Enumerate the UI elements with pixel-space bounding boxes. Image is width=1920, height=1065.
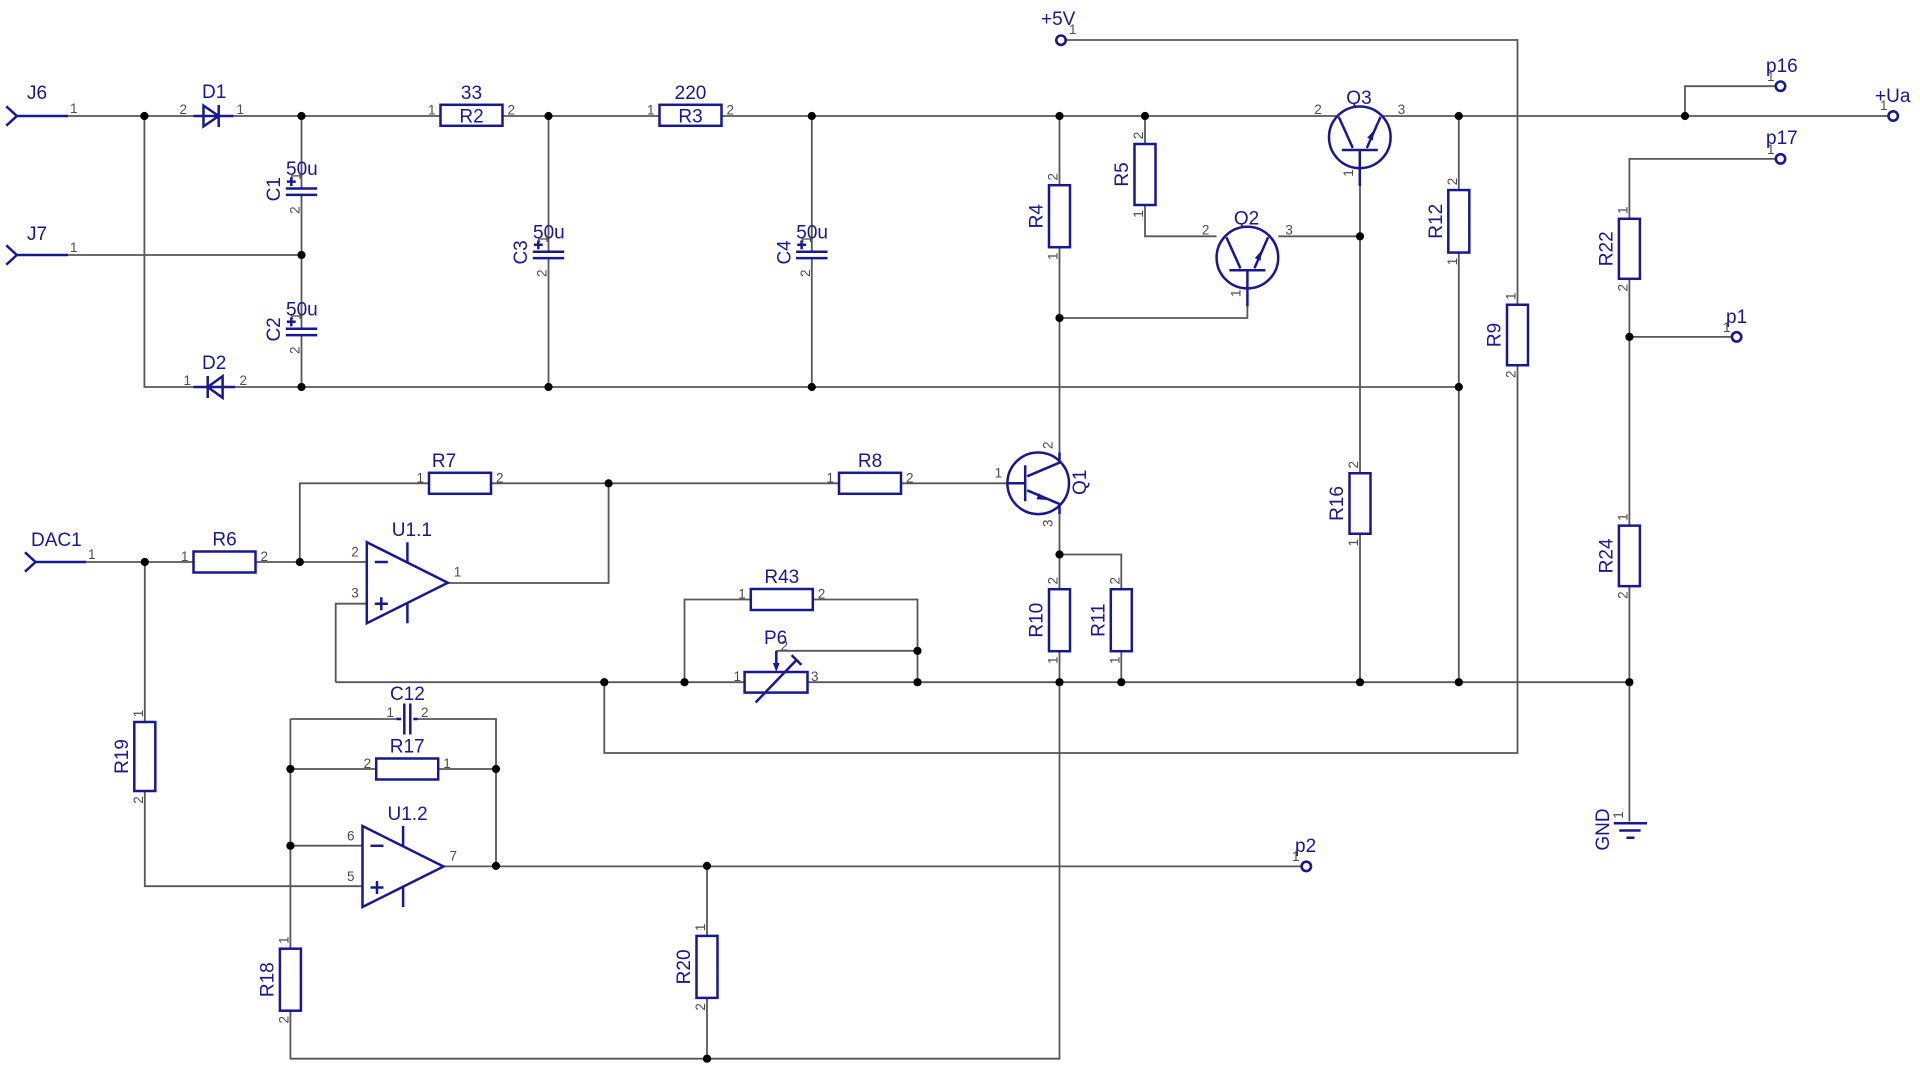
junction R7-R8-out	[605, 479, 613, 487]
junction C3 bottom	[544, 383, 552, 391]
wire R6 to U1.1 in-	[256, 561, 367, 563]
diode D2	[183, 353, 247, 398]
wire rail to GND	[1628, 682, 1630, 821]
svg-text:1: 1	[1504, 292, 1519, 300]
node p16	[1766, 56, 1798, 91]
svg-text:R3: R3	[678, 106, 702, 127]
resistor R19	[112, 710, 156, 804]
junction P6 wiper node	[913, 647, 921, 655]
junction R17 right	[492, 765, 500, 773]
wire C1 to J7 node	[301, 195, 303, 255]
wire +5V rail top	[1066, 40, 1518, 305]
svg-text:1: 1	[1616, 513, 1631, 521]
wire R11 jog	[1060, 555, 1122, 590]
wire R3 to Q3	[722, 115, 1339, 117]
svg-text:2: 2	[508, 102, 516, 117]
svg-text:1: 1	[416, 470, 424, 485]
resistor R22	[1596, 207, 1640, 292]
junction rail-R24	[1625, 678, 1633, 686]
svg-text:2: 2	[1108, 577, 1123, 585]
capacitor C12	[386, 684, 428, 735]
wire R6 node up to R7	[300, 483, 429, 562]
svg-text:1: 1	[1292, 849, 1300, 864]
svg-text:1: 1	[1616, 207, 1631, 215]
junction J6-D1 node	[140, 112, 148, 120]
wire bias node down	[707, 682, 1060, 1058]
wire J6 to D1 and C1 node	[68, 115, 441, 117]
wire R9 down and jog to rail	[604, 365, 1517, 753]
transistor Q3	[1314, 88, 1405, 186]
svg-text:1: 1	[289, 313, 304, 321]
wire R22 to p1 node	[1628, 279, 1630, 337]
svg-text:5: 5	[347, 869, 355, 884]
svg-text:R4: R4	[1027, 204, 1048, 229]
svg-text:R11: R11	[1088, 603, 1109, 636]
svg-text:2: 2	[1314, 102, 1322, 117]
wire DAC1 node to R19	[144, 562, 146, 722]
junction R5 top	[1141, 112, 1149, 120]
svg-text:2: 2	[1046, 577, 1061, 585]
wire C2 lead top	[301, 255, 303, 328]
junction p16 node	[1681, 112, 1689, 120]
svg-text:1: 1	[1069, 22, 1077, 37]
wire D2 to R12 node	[235, 386, 1459, 388]
svg-text:2: 2	[496, 470, 504, 485]
svg-text:U1.2: U1.2	[388, 804, 428, 825]
svg-text:2: 2	[1616, 591, 1631, 599]
wire R43 right leg	[813, 600, 918, 683]
junction p1 node	[1625, 333, 1633, 341]
wire p1 node to R24	[1628, 337, 1630, 526]
wire C3 lead bottom	[548, 259, 550, 388]
resistor R12	[1426, 178, 1470, 266]
wire U1.1 in+ loop	[336, 604, 367, 683]
junction rail-R9	[600, 678, 608, 686]
junction DAC1-R19	[141, 558, 149, 566]
wire C12 node down	[289, 719, 291, 846]
junction C3 top	[544, 112, 552, 120]
svg-text:1: 1	[1445, 258, 1460, 266]
svg-text:Q2: Q2	[1234, 208, 1259, 229]
svg-text:DAC1: DAC1	[31, 530, 82, 551]
svg-text:7: 7	[450, 849, 458, 864]
wire R20 bottom	[706, 998, 708, 1059]
svg-text:Q1: Q1	[1070, 470, 1091, 495]
svg-text:U1.1: U1.1	[392, 520, 432, 541]
junction J7-C1-C2	[297, 251, 305, 259]
op-amp U1.2	[347, 804, 457, 907]
svg-text:1: 1	[1341, 169, 1356, 177]
junction rail-R10	[1055, 678, 1063, 686]
svg-text:3: 3	[1041, 520, 1056, 528]
svg-text:1: 1	[1611, 811, 1626, 819]
node +5V	[1041, 9, 1077, 45]
svg-text:1: 1	[1346, 539, 1361, 547]
svg-text:2: 2	[693, 1003, 708, 1011]
node p17	[1766, 128, 1798, 164]
wire P6 wiper to node	[776, 650, 917, 652]
resistor R16	[1327, 461, 1371, 547]
svg-text:2: 2	[1046, 173, 1061, 181]
wire R17 row right	[438, 768, 496, 770]
wire R12 node to rail	[1458, 387, 1460, 682]
junction out-R20	[703, 862, 711, 870]
junction C4 top	[808, 112, 816, 120]
resistor R4	[1027, 173, 1071, 260]
svg-text:R43: R43	[764, 567, 799, 588]
junction rail-R12	[1455, 678, 1463, 686]
svg-text:2: 2	[364, 756, 372, 771]
wire bias rail left	[336, 681, 745, 683]
diode D1	[179, 82, 244, 127]
svg-text:3: 3	[811, 669, 819, 684]
transistor Q1	[995, 442, 1092, 528]
svg-text:1: 1	[1131, 210, 1146, 218]
svg-text:2: 2	[351, 545, 359, 560]
junction C1 top	[297, 112, 305, 120]
svg-text:3: 3	[351, 585, 359, 600]
wire C12 row right	[418, 719, 497, 866]
svg-text:1: 1	[277, 936, 292, 944]
svg-text:R6: R6	[212, 530, 236, 551]
svg-text:R20: R20	[674, 949, 695, 984]
svg-text:1: 1	[738, 587, 746, 602]
svg-text:D2: D2	[202, 353, 226, 374]
wire J6 node down to D2	[144, 116, 193, 387]
wire C12 row left	[290, 718, 396, 720]
wire DAC1 to R6	[86, 561, 194, 563]
transistor Q2	[1202, 208, 1293, 306]
svg-text:R7: R7	[432, 451, 456, 472]
svg-text:R16: R16	[1327, 486, 1348, 521]
svg-text:3: 3	[1398, 102, 1406, 117]
junction R17 left	[286, 765, 294, 773]
wire R18 to bottom rail	[290, 1011, 707, 1059]
svg-text:C2: C2	[264, 317, 285, 341]
svg-text:1: 1	[1108, 656, 1123, 664]
svg-text:2: 2	[1616, 284, 1631, 292]
wire R43 left leg	[685, 600, 751, 683]
svg-text:2: 2	[277, 1016, 292, 1024]
svg-text:2: 2	[288, 206, 303, 214]
svg-text:1: 1	[289, 172, 304, 180]
wire R10 top	[1059, 555, 1061, 590]
capacitor C1	[264, 159, 318, 214]
svg-text:Q3: Q3	[1346, 88, 1371, 109]
svg-text:R17: R17	[390, 737, 425, 758]
svg-text:1: 1	[454, 565, 462, 580]
svg-text:2: 2	[906, 470, 914, 485]
resistor R18	[257, 936, 301, 1023]
svg-text:1: 1	[799, 236, 814, 244]
svg-text:2: 2	[781, 639, 789, 654]
resistor R24	[1596, 513, 1640, 599]
connector DAC1	[25, 530, 96, 572]
ground GND	[1593, 808, 1647, 850]
svg-text:J6: J6	[27, 83, 47, 104]
wire R7 to R8	[491, 482, 839, 484]
svg-text:1: 1	[88, 547, 96, 562]
svg-text:1: 1	[183, 373, 191, 388]
svg-text:3: 3	[1285, 222, 1293, 237]
wire bias rail right	[808, 681, 1630, 683]
wire Q2 to Q3 node	[1278, 235, 1360, 237]
svg-text:2: 2	[288, 347, 303, 355]
wire R12 top	[1458, 116, 1460, 190]
wire p16 stub	[1685, 86, 1776, 116]
svg-text:1: 1	[237, 102, 245, 117]
svg-text:2: 2	[818, 587, 826, 602]
svg-text:1: 1	[693, 924, 708, 932]
svg-text:R18: R18	[257, 962, 278, 997]
svg-text:33: 33	[461, 83, 482, 104]
svg-text:1: 1	[443, 756, 451, 771]
resistor R8	[826, 451, 913, 494]
wire R17 row left	[290, 768, 376, 770]
svg-text:D1: D1	[202, 82, 226, 103]
svg-text:2: 2	[179, 102, 187, 117]
wire R8 to Q1 base	[901, 482, 1008, 484]
junction Q2-Q3 node	[1356, 232, 1364, 240]
junction rail-R43	[680, 678, 688, 686]
svg-text:2: 2	[727, 102, 735, 117]
svg-text:C1: C1	[264, 177, 285, 201]
wire C3 lead top	[548, 116, 550, 251]
svg-text:R5: R5	[1112, 162, 1133, 186]
junction C4 bottom	[808, 383, 816, 391]
wire C4 lead bottom	[811, 259, 813, 388]
op-amp U1.1	[351, 520, 461, 623]
junction rail-R43b	[913, 678, 921, 686]
wire Q3 to +Ua	[1381, 115, 1888, 117]
wire R12 to D2 row	[1458, 253, 1460, 387]
svg-text:2: 2	[240, 373, 248, 388]
resistor R43	[738, 567, 825, 610]
svg-text:2: 2	[1445, 178, 1460, 186]
svg-text:6: 6	[347, 829, 355, 844]
connector J7	[6, 224, 77, 265]
svg-text:R12: R12	[1426, 204, 1447, 239]
junction Q1-R10-R11	[1055, 550, 1063, 558]
junction rail-R16	[1356, 678, 1364, 686]
wire U1.1 output	[448, 483, 609, 583]
capacitor C4	[774, 222, 828, 277]
capacitor C2	[264, 299, 318, 354]
svg-text:R10: R10	[1027, 603, 1048, 638]
wire R24 to rail	[1628, 586, 1630, 682]
resistor R9	[1485, 292, 1529, 378]
node p2	[1292, 836, 1316, 871]
svg-text:C12: C12	[390, 684, 425, 705]
svg-text:220: 220	[675, 83, 707, 104]
wire p17 to R22	[1629, 159, 1775, 219]
wire R5 to Q2 base	[1145, 205, 1217, 236]
svg-text:2: 2	[261, 549, 269, 564]
resistor R17	[364, 737, 451, 780]
svg-text:2: 2	[1202, 222, 1210, 237]
svg-text:R24: R24	[1596, 538, 1617, 573]
svg-text:1: 1	[995, 465, 1003, 480]
svg-text:2: 2	[1346, 461, 1361, 469]
junction R4 top	[1055, 112, 1063, 120]
svg-text:1: 1	[1046, 656, 1061, 664]
svg-text:R22: R22	[1596, 231, 1617, 266]
svg-text:1: 1	[1767, 69, 1775, 84]
svg-text:C4: C4	[774, 240, 795, 265]
resistor R11	[1088, 577, 1132, 664]
svg-text:1: 1	[1767, 142, 1775, 157]
connector J6	[6, 83, 77, 126]
resistor R6	[181, 530, 268, 573]
svg-text:1: 1	[1880, 98, 1888, 113]
wire Q1 emitter down	[1059, 515, 1061, 555]
svg-text:2: 2	[535, 270, 550, 278]
svg-text:1: 1	[70, 101, 78, 116]
wire Q3 emitter down	[1359, 186, 1361, 473]
wire R16 to rail	[1359, 534, 1361, 683]
svg-text:R9: R9	[1485, 323, 1506, 347]
svg-text:1: 1	[70, 240, 78, 255]
svg-text:1: 1	[386, 705, 394, 720]
resistor R7	[416, 451, 503, 494]
svg-text:1: 1	[536, 236, 551, 244]
junction R6-R7 node	[296, 558, 304, 566]
resistor R3	[647, 83, 734, 128]
capacitor C3	[511, 222, 565, 277]
junction R12-D2 row	[1455, 383, 1463, 391]
svg-text:1: 1	[428, 102, 436, 117]
svg-text:1: 1	[1228, 290, 1243, 298]
node p1	[1723, 307, 1747, 342]
svg-text:1: 1	[1723, 320, 1731, 335]
node +Ua	[1875, 86, 1911, 121]
junction R12 top	[1455, 112, 1463, 120]
junction Q2 emitter	[1055, 314, 1063, 322]
svg-text:1: 1	[181, 549, 189, 564]
wire U1.2 output to p2	[444, 865, 1302, 867]
wire J7 to C1-C2 node	[68, 254, 302, 256]
wire R11 bottom	[1120, 651, 1122, 682]
svg-text:2: 2	[798, 270, 813, 278]
wire R20 top	[706, 866, 708, 935]
svg-text:R19: R19	[112, 739, 133, 774]
wire R4 top	[1059, 116, 1061, 185]
wire C4 lead top	[811, 116, 813, 251]
svg-text:C3: C3	[511, 240, 532, 264]
svg-text:1: 1	[647, 102, 655, 117]
resistor R2	[428, 83, 515, 128]
resistor R20	[674, 924, 718, 1011]
junction C2 bottom	[297, 383, 305, 391]
svg-text:R2: R2	[459, 106, 483, 127]
wire R5 top	[1144, 116, 1146, 144]
wire C2 lead bottom	[301, 336, 303, 388]
wire U1.2 in- stub	[290, 845, 362, 847]
junction out-C12 loop	[492, 862, 500, 870]
svg-text:1: 1	[733, 669, 741, 684]
resistor R10	[1027, 577, 1071, 664]
svg-text:1: 1	[131, 710, 146, 718]
wire R4 to Q1 collector	[1059, 247, 1061, 452]
wire R10 bottom	[1059, 651, 1061, 682]
svg-text:2: 2	[421, 705, 429, 720]
svg-text:2: 2	[131, 796, 146, 804]
wire R2 to R3	[503, 115, 660, 117]
svg-text:2: 2	[1131, 132, 1146, 140]
wire R19 to U1.2 in+	[145, 791, 363, 886]
svg-text:1: 1	[1046, 252, 1061, 260]
wire U1.2 node to R18	[289, 846, 291, 949]
svg-text:R8: R8	[858, 451, 882, 472]
svg-text:2: 2	[1041, 442, 1056, 450]
wire p1 stub	[1629, 336, 1731, 338]
svg-text:2: 2	[1504, 370, 1519, 378]
junction U1.2 in-	[286, 842, 294, 850]
resistor R5	[1112, 132, 1156, 218]
potentiometer P6	[733, 628, 818, 703]
wire Q2 emitter jog	[1060, 289, 1248, 318]
svg-text:J7: J7	[27, 224, 47, 245]
junction R20 bottom	[703, 1055, 711, 1063]
svg-text:1: 1	[826, 470, 834, 485]
junction rail-R11	[1117, 678, 1125, 686]
wire C1 leads	[301, 116, 303, 188]
